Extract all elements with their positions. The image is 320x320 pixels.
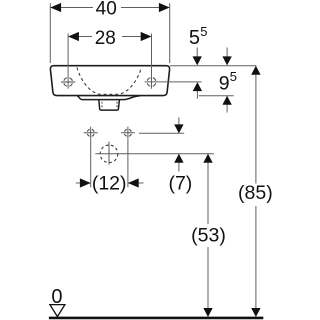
fixing hole crosshair right [124, 129, 131, 136]
ref line 9.5 bottom [199, 95, 234, 97]
svg-text:5: 5 [200, 24, 207, 39]
dim (7) upper arrow [178, 118, 180, 127]
dim 9.5 lower arrow [226, 103, 228, 113]
tap hole left [64, 78, 73, 87]
dim 5.5 lower arrow [196, 89, 198, 99]
svg-text:(85): (85) [238, 182, 273, 204]
basin bowl dashed curve [77, 68, 141, 95]
dim (53) line [207, 162, 209, 309]
washbasin front view outline [50, 66, 169, 96]
ref line tap hole level extended right [145, 81, 202, 83]
dim 28 extension lines [68, 34, 151, 89]
tap hole right [147, 78, 156, 87]
dim (85) arrows [251, 66, 260, 75]
dim 28 arrows [68, 32, 79, 41]
fixing hole crosshair left [87, 129, 94, 136]
svg-text:28: 28 [95, 28, 116, 49]
svg-text:(7): (7) [168, 173, 192, 195]
dim 40 arrows [50, 3, 61, 12]
ref line fixing hole level extended right [139, 132, 184, 134]
dim 40 extension lines [50, 3, 169, 63]
dim (85) line [255, 74, 257, 309]
dim 9.5 upper arrow [226, 48, 228, 59]
dim (53) arrows [203, 154, 212, 163]
ground line [49, 317, 263, 320]
apron and drain box below basin [77, 96, 140, 110]
svg-text:(53): (53) [191, 225, 226, 247]
drain dashed circle [100, 145, 118, 163]
dim (12) left arrow [76, 182, 91, 184]
extension lines from fixing holes down [91, 140, 128, 188]
dim 28 line [68, 36, 151, 38]
drain circle vertical axis [108, 142, 110, 165]
svg-text:9: 9 [219, 72, 230, 94]
dim (12) right arrow [128, 182, 144, 184]
svg-text:5: 5 [230, 69, 237, 84]
svg-text:40: 40 [96, 0, 117, 20]
dim 5.5 upper arrow [196, 48, 198, 59]
dim 40 line [50, 7, 169, 9]
drain box inner ticks [102, 102, 117, 109]
svg-text:(12): (12) [92, 172, 127, 194]
dim (7) lower arrow [178, 162, 180, 172]
ref line basin top extended right [170, 65, 256, 67]
zero level triangle [50, 305, 65, 317]
ref line drain level [95, 153, 214, 155]
svg-text:5: 5 [189, 27, 200, 49]
